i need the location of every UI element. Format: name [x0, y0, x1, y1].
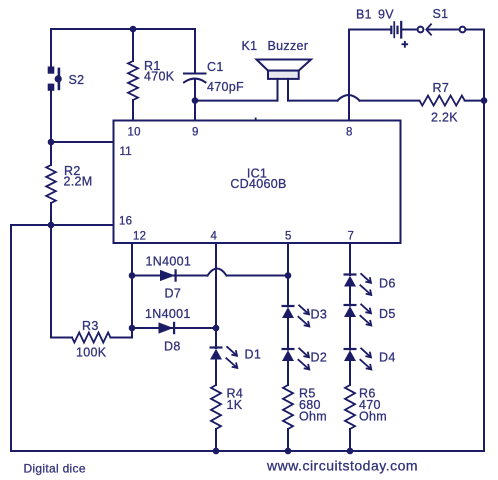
wire buzzer right leg [287, 79, 289, 101]
LED D5 [344, 304, 372, 326]
svg-text:100K: 100K [76, 346, 107, 360]
wire hump to R7 [360, 100, 420, 102]
resistor R3 [72, 333, 111, 343]
svg-text:7: 7 [348, 231, 355, 243]
node pin16 junction [48, 222, 55, 229]
node D7 right junction [285, 272, 292, 279]
svg-text:470pF: 470pF [207, 80, 244, 94]
switch S1 terminal circle left [418, 27, 424, 33]
wire R7 to right border [465, 100, 484, 102]
wire right border [483, 30, 485, 452]
wire D2 to R5 [287, 361, 289, 385]
resistor R5 [283, 385, 293, 429]
svg-text:D7: D7 [165, 287, 182, 301]
node D8 right junction [213, 325, 220, 332]
wire D3 to D2 [287, 318, 289, 350]
node R1 top junction [130, 26, 137, 33]
svg-text:5: 5 [285, 231, 292, 243]
svg-text:www.circuitstoday.com: www.circuitstoday.com [266, 458, 418, 474]
switch S1 terminal circle right [460, 27, 466, 33]
wire pin 4 column upper [215, 243, 217, 348]
svg-text:Digital dice: Digital dice [24, 462, 86, 476]
svg-text:Buzzer: Buzzer [268, 39, 309, 53]
LED D4 [344, 348, 372, 370]
wire R5 to rail [287, 429, 289, 451]
resistor R4 [211, 385, 221, 429]
svg-text:470K: 470K [144, 70, 175, 84]
buzzer K1 magnet box [268, 71, 299, 79]
wire S2 upper [50, 29, 52, 68]
wire stub unused pin on IC top edge [255, 118, 257, 122]
wire pin 12 column [131, 243, 133, 338]
capacitor C1 [184, 74, 206, 83]
svg-text:D8: D8 [164, 340, 181, 354]
battery B1 [390, 21, 402, 39]
buzzer K1 cone [257, 60, 312, 71]
diode D8 [159, 322, 176, 334]
svg-text:9: 9 [192, 127, 199, 139]
svg-text:K1: K1 [242, 39, 258, 53]
LED D1 [210, 346, 238, 368]
node C1-buzzer junction [192, 97, 199, 104]
svg-text:D5: D5 [379, 307, 396, 321]
wire D5 to D4 [349, 317, 351, 350]
LED D6 [344, 273, 372, 295]
node R7 right junction [481, 97, 488, 104]
wire pin 11 [51, 141, 114, 143]
LED D3 [282, 305, 310, 327]
svg-text:R3: R3 [82, 319, 99, 333]
svg-text:CD4060B: CD4060B [230, 177, 286, 191]
node pin11 junction [48, 139, 55, 146]
wire R1 bottom to pin 10 [132, 100, 134, 121]
wire C1 top lead [194, 29, 196, 74]
svg-text:11: 11 [120, 146, 132, 158]
wire C1 bottom to pin 9 [194, 80, 196, 121]
wire R1 top lead [132, 29, 134, 61]
svg-text:Ohm: Ohm [299, 410, 327, 424]
battery plus sign [402, 41, 409, 48]
wire R6 to rail [349, 429, 351, 451]
wire pin 7 column upper [349, 243, 351, 275]
wire D7 row left [132, 275, 208, 277]
node D7 left junction [129, 272, 136, 279]
svg-text:Ohm: Ohm [359, 410, 387, 424]
svg-text:1N4001: 1N4001 [146, 255, 192, 269]
svg-text:10: 10 [128, 127, 141, 139]
svg-text:16: 16 [119, 216, 132, 228]
svg-text:D3: D3 [311, 308, 328, 322]
wire R4 to rail [215, 429, 217, 451]
svg-text:B1: B1 [356, 8, 372, 22]
svg-text:D2: D2 [311, 351, 328, 365]
svg-text:9V: 9V [378, 8, 394, 22]
wire pin 5 column upper [287, 243, 289, 307]
wire S1 to right corner [466, 29, 484, 31]
switch S2 [48, 67, 62, 91]
resistor R2 [46, 165, 56, 203]
wire bottom rail [11, 450, 484, 452]
wire crossover hump over pin8 line [338, 95, 360, 101]
wire D8 row [132, 327, 216, 329]
wire buzzer to C1 node [195, 100, 278, 102]
wire R2 bottom to R3 [50, 203, 52, 338]
svg-text:1N4001: 1N4001 [145, 307, 191, 321]
svg-text:8: 8 [346, 127, 353, 139]
wire top-left net [51, 28, 195, 30]
wire buzzer right to hump [288, 100, 338, 102]
LED D2 [282, 348, 310, 370]
node rail pin4 [213, 448, 220, 455]
wire battery left (from pin8 corner) [349, 29, 390, 31]
svg-text:D1: D1 [245, 348, 262, 362]
resistor R6 [345, 385, 355, 429]
switch S1 arrow [426, 24, 431, 36]
wire R3 right lead [111, 337, 133, 339]
wire S2 lower to pin11 node [50, 91, 52, 165]
node rail pin5 [285, 448, 292, 455]
svg-text:C1: C1 [207, 60, 224, 74]
svg-text:2.2M: 2.2M [64, 175, 93, 189]
node D8 left junction [129, 325, 136, 332]
diode D7 [160, 269, 177, 281]
wire buzzer left leg [277, 79, 279, 101]
svg-text:S1: S1 [433, 7, 449, 21]
svg-text:1K: 1K [227, 398, 243, 412]
wire D4 to R6 [349, 361, 351, 385]
svg-text:D4: D4 [379, 351, 396, 365]
wire R3 left lead [51, 337, 72, 339]
resistor R1 [128, 61, 138, 100]
wire D7 row right [227, 275, 289, 277]
resistor R7 [420, 96, 465, 106]
wire pin4 LED to R4 [215, 360, 217, 386]
svg-text:R7: R7 [433, 81, 450, 95]
svg-text:2.2K: 2.2K [431, 111, 458, 125]
wire battery to S1 [402, 29, 417, 31]
node rail pin7 [347, 448, 354, 455]
wire pin 8 vertical [348, 30, 350, 121]
wire pin 16 [11, 224, 114, 226]
op-amp IC1 CD4060B box [114, 121, 401, 244]
wire crossover hump over pin4 line [208, 269, 227, 276]
svg-text:4: 4 [211, 231, 218, 243]
switch S1 lever wire [427, 29, 459, 31]
svg-text:S2: S2 [69, 73, 85, 87]
svg-text:D6: D6 [379, 277, 396, 291]
wire left border [10, 225, 12, 451]
svg-text:12: 12 [133, 231, 146, 243]
wire D6 to D5 [349, 287, 351, 306]
